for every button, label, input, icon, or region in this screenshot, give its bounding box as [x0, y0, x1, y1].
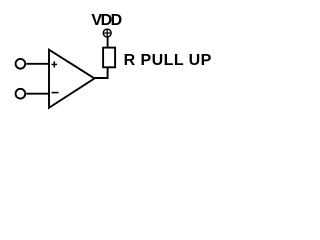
svg-text:R PULL UP: R PULL UP	[124, 52, 212, 69]
svg-text:VDD: VDD	[91, 12, 121, 29]
